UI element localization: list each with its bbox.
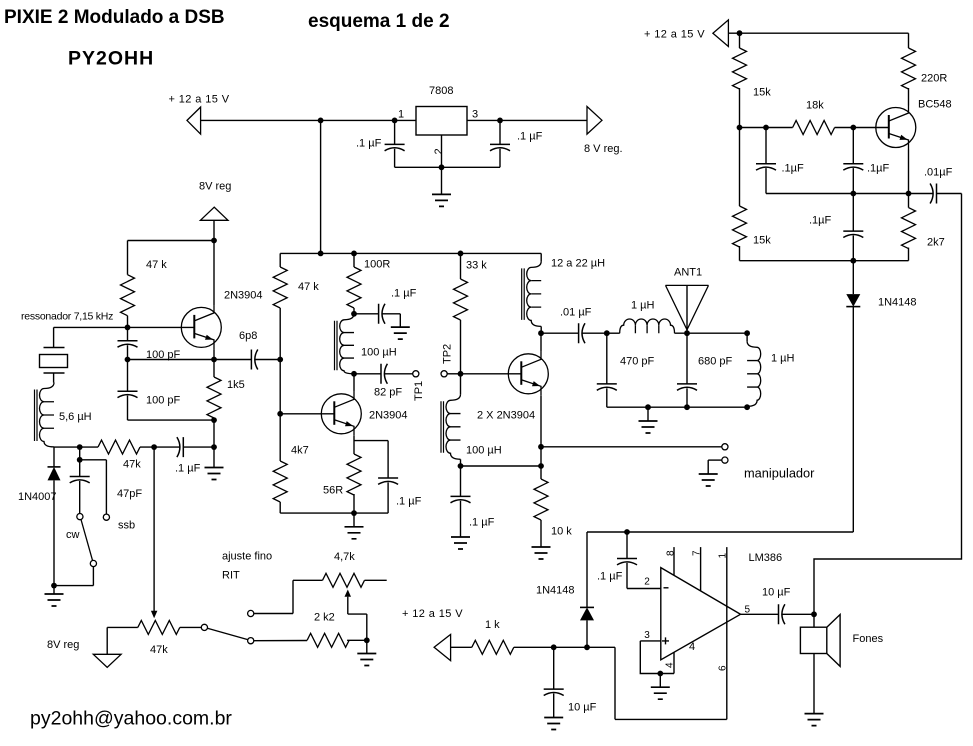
resistor 18k <box>793 121 835 135</box>
resistor 2 k2 <box>307 633 349 647</box>
wire .01uF right lead <box>582 332 607 334</box>
wire base row left <box>740 127 793 129</box>
wire speaker bottom lead <box>813 654 815 714</box>
ground buffer <box>345 527 364 539</box>
wire +12V rail to 7808 pin1 <box>201 119 395 121</box>
wire output cap right lead <box>782 613 814 615</box>
svg-text:47k: 47k <box>123 459 141 471</box>
op-amp U2 LM386 triangle <box>661 568 741 660</box>
svg-text:.1µF: .1µF <box>867 163 890 175</box>
switch lever RIT <box>207 628 247 639</box>
switch lever cw <box>81 520 93 561</box>
svg-text:.1 µF: .1 µF <box>391 288 417 300</box>
node collector decoup <box>351 311 357 317</box>
node osc ground <box>211 444 217 450</box>
svg-text:2 k2: 2 k2 <box>314 612 335 624</box>
wire ground stem buffer <box>353 513 355 527</box>
svg-text:8: 8 <box>665 550 676 556</box>
svg-text:6: 6 <box>717 665 728 671</box>
capacitor .01uF sidetone <box>930 184 936 204</box>
wire wiper corner <box>348 613 367 615</box>
speaker Fones box <box>800 627 826 653</box>
svg-text:1 µH: 1 µH <box>631 300 655 312</box>
terminal ssb <box>103 514 109 520</box>
wire antenna stem <box>686 285 688 333</box>
pin 1-6 line <box>726 547 728 719</box>
ground 7808 <box>432 194 451 206</box>
node rail x460 <box>458 251 464 257</box>
resistor 220R <box>902 48 916 89</box>
node varicap tap <box>77 444 83 450</box>
wire emitter row <box>128 359 215 361</box>
wire choke to emitter node <box>461 465 542 467</box>
wire wiper down <box>347 597 349 614</box>
svg-text:100 µH: 100 µH <box>466 445 502 457</box>
resistor 100R <box>347 267 361 308</box>
wire 1k5 top stub <box>213 360 215 378</box>
wire bottom of divider <box>128 419 215 421</box>
wire 10uF bottom lead <box>553 694 555 718</box>
wire bottom bus top right <box>740 260 909 262</box>
node filter gnd c <box>744 404 750 410</box>
node 8V reg <box>211 238 217 244</box>
speaker Fones cone <box>827 615 840 667</box>
node emitter bus b <box>906 191 912 197</box>
wiper arrow RIT pot <box>151 611 158 619</box>
wire capC top lead <box>852 194 854 232</box>
wire capC bottom lead <box>852 236 854 261</box>
diode 1N4007 <box>48 467 61 481</box>
capacitor 10 uF audio <box>544 689 564 695</box>
wire to pin2 <box>627 588 661 590</box>
svg-text:100R: 100R <box>364 259 390 271</box>
svg-text:4,7k: 4,7k <box>334 551 355 563</box>
wire switch common to ground <box>54 585 93 587</box>
wire 33k top stub <box>460 253 462 279</box>
wire upper throw to corner <box>254 613 293 615</box>
wire coil bottom to 47k row <box>53 446 55 448</box>
svg-text:2 X 2N3904: 2 X 2N3904 <box>477 410 535 422</box>
resistor 15k upper <box>733 48 747 89</box>
svg-text:1N4148: 1N4148 <box>878 297 917 309</box>
wire 7808 pin2 <box>441 135 443 167</box>
inductor 5,6 uH <box>35 383 55 447</box>
wire ground stem filter <box>647 407 649 421</box>
wire diode top lead TR <box>852 261 854 294</box>
ground RIT <box>357 654 376 666</box>
node RIT line <box>151 444 157 450</box>
connector +12V arrow top right <box>713 20 729 47</box>
wire crystal bottom lead <box>53 373 55 383</box>
wire crystal top lead <box>53 327 55 347</box>
node 10uF audio <box>551 644 557 650</box>
svg-text:15k: 15k <box>753 87 771 99</box>
svg-text:+ 12 a 15 V: + 12 a 15 V <box>644 29 705 41</box>
svg-text:47pF: 47pF <box>117 488 142 500</box>
svg-text:.1 µF: .1 µF <box>175 463 201 475</box>
wire capA top lead <box>765 128 767 164</box>
wire ground stem osc <box>213 447 215 467</box>
svg-text:.1µF: .1µF <box>782 163 805 175</box>
wire cap C1 bottom lead <box>394 149 396 168</box>
svg-text:2N3904: 2N3904 <box>224 290 263 302</box>
capacitor 100 pF lower <box>118 391 138 397</box>
wire 2k7 bottom stub <box>908 248 910 261</box>
ground decoup <box>391 327 410 339</box>
ground 10uF audio <box>544 718 563 730</box>
node 7808 pin1 <box>392 118 398 124</box>
node Q3 emitter <box>538 444 544 450</box>
node emitter bus a <box>850 191 856 197</box>
wire 56R bottom stub <box>353 494 355 513</box>
wire 15k-2 top stub <box>739 128 741 207</box>
connector 8V reg output arrow <box>587 107 602 135</box>
wire sidetone cap left lead <box>909 193 933 195</box>
node antenna <box>684 330 690 336</box>
transistor Q2 2N3904 buffer <box>321 392 361 436</box>
capacitor .1 uF decoup <box>379 304 385 324</box>
svg-text:1: 1 <box>398 109 404 121</box>
power symbol 8V reg down-triangle <box>93 654 121 667</box>
wire 6p8 right lead <box>255 359 280 361</box>
wire shunt coil top lead <box>746 333 748 341</box>
terminal manipulador hot <box>722 444 728 450</box>
resistor 4k7 <box>273 461 287 502</box>
terminal TP1 <box>413 371 419 377</box>
svg-text:18k: 18k <box>806 100 824 112</box>
svg-text:esquema 1 de 2: esquema 1 de 2 <box>308 11 450 32</box>
resistor 47 k bias <box>121 275 135 316</box>
wire cap C2 bottom lead <box>499 149 501 168</box>
wire ground stem RIT <box>366 640 368 653</box>
capacitor .1 uF final <box>451 496 471 502</box>
capacitor 82 pF <box>381 364 387 384</box>
wire 4k7 bottom stub <box>279 502 281 513</box>
svg-text:15k: 15k <box>753 235 771 247</box>
svg-text:5,6 µH: 5,6 µH <box>59 411 92 423</box>
wire audio diode top lead <box>586 532 588 607</box>
node PA collector <box>538 330 544 336</box>
wire sidetone right lead <box>937 193 962 195</box>
node 7808 ground <box>439 164 445 170</box>
capacitor .1uF output <box>490 144 510 150</box>
svg-text:LM386: LM386 <box>749 552 783 564</box>
node filter gnd a <box>645 404 651 410</box>
minus sign pin2 <box>664 587 669 589</box>
potentiometer 4,7k <box>323 573 365 587</box>
capacitor .1 uF LM386 input <box>617 559 637 565</box>
wire 15k-1 top stub <box>739 33 741 48</box>
wire cap 100pF-2 top lead <box>127 360 129 392</box>
wire 15k-1 bottom stub <box>739 88 741 128</box>
wire 470pF bottom lead <box>606 388 608 407</box>
wire cap627 top lead <box>626 532 628 559</box>
svg-text:cw: cw <box>66 529 80 541</box>
node 7808 pin3 <box>497 118 503 124</box>
connector +12V arrow bottom <box>434 634 451 660</box>
svg-text:.01 µF: .01 µF <box>560 307 592 319</box>
node Q4 base <box>850 125 856 131</box>
wire 7808 pin3 stub <box>467 119 500 121</box>
svg-text:TP1: TP1 <box>413 381 425 401</box>
wire sidetone to speaker <box>814 194 962 615</box>
node op-amp ground <box>657 671 663 677</box>
svg-text:7: 7 <box>692 550 703 556</box>
inductor 1 uH shunt <box>747 341 761 406</box>
capacitor .1uF C <box>843 231 863 237</box>
capacitor .1 uF osc <box>177 437 183 457</box>
wire speaker top lead <box>813 614 815 627</box>
node choke bottom <box>458 463 464 469</box>
svg-text:ANT1: ANT1 <box>674 267 702 279</box>
wire key jack ground down <box>707 460 709 474</box>
wire 6p8 left lead <box>214 359 251 361</box>
inductor 100 uH buffer <box>335 314 355 374</box>
wire cap 100pF-1 bottom lead <box>127 345 129 359</box>
svg-text:3: 3 <box>644 630 650 641</box>
wire Q2 base <box>280 413 334 415</box>
svg-text:4: 4 <box>689 641 695 653</box>
svg-text:PY2OHH: PY2OHH <box>68 48 154 70</box>
wire cap to gnd node <box>183 446 214 448</box>
potentiometer 47k RIT <box>138 620 180 634</box>
node Q1 emitter <box>211 357 217 363</box>
wire emitter to key jack <box>541 446 722 448</box>
wire .01uF left lead <box>541 332 579 334</box>
svg-text:1k5: 1k5 <box>227 379 245 391</box>
svg-text:manipulador: manipulador <box>744 466 815 481</box>
pin 8 stub <box>673 547 675 575</box>
svg-text:.1 µF: .1 µF <box>597 571 623 583</box>
diode 1N4148 audio <box>580 607 594 620</box>
wire diode down long <box>852 307 854 532</box>
wire to 47k pot <box>107 626 138 628</box>
wire 10k bottom stub <box>540 520 542 547</box>
wire 680pF top lead <box>686 333 688 384</box>
svg-text:8V reg: 8V reg <box>47 639 79 651</box>
wire 47k to base column <box>279 308 281 414</box>
wiper arrow 4,7k pot <box>345 590 352 597</box>
diode 1N4148 top <box>846 294 860 307</box>
wire 100R top stub <box>353 253 355 267</box>
wire to 1uH <box>607 332 620 334</box>
wire output pin5 <box>741 613 779 615</box>
wire audio diode bottom lead <box>586 620 588 647</box>
pin 3 loop <box>640 641 674 674</box>
capacitor 47pF <box>70 477 90 483</box>
capacitor .01 uF coupling <box>579 323 585 343</box>
pin 7 stub <box>700 547 702 591</box>
svg-text:2: 2 <box>433 148 445 154</box>
antenna ANT1 <box>666 285 709 329</box>
node 1uH shunt top <box>744 330 750 336</box>
capacitor 470 pF <box>597 384 617 390</box>
svg-text:8 V reg.: 8 V reg. <box>584 143 623 155</box>
node buffer input <box>277 357 283 363</box>
node rail x320 <box>318 251 324 257</box>
ground final bypass <box>451 537 470 549</box>
svg-text:.1 µF: .1 µF <box>517 131 543 143</box>
wire cap 100pF-1 top lead <box>127 327 129 340</box>
svg-text:100 µH: 100 µH <box>361 347 397 359</box>
node speaker <box>811 611 817 617</box>
svg-text:10 µF: 10 µF <box>568 702 597 714</box>
resistor 47 k buffer bias <box>273 267 287 308</box>
capacitor 6p8 <box>251 350 257 370</box>
wire 47pF bottom lead <box>79 481 81 514</box>
wire Q4 emitter down <box>908 150 910 194</box>
svg-text:4: 4 <box>665 662 676 668</box>
wire 220R top stub <box>908 33 910 48</box>
terminal cw <box>77 514 83 520</box>
wire 10uF top lead <box>553 647 555 689</box>
plus sign pin3 <box>662 637 669 644</box>
svg-text:8V reg: 8V reg <box>199 181 231 193</box>
wire filter mid <box>675 332 748 334</box>
svg-text:10 k: 10 k <box>551 526 572 538</box>
wire 7808 output to 8V connector <box>500 119 587 121</box>
node 1k5 bottom <box>211 417 217 423</box>
ground 10k <box>532 547 551 559</box>
wire 4,7k right stub <box>365 579 387 581</box>
svg-text:2: 2 <box>644 577 650 588</box>
svg-text:1N4007: 1N4007 <box>18 491 57 503</box>
wire to 1k <box>451 646 472 648</box>
svg-text:ssb: ssb <box>118 520 135 532</box>
wire branch down to cap <box>387 441 389 478</box>
transistor Q1 2N3904 oscillator <box>181 305 221 349</box>
wire ground stem op-amp <box>659 674 661 688</box>
wire 47k top stub <box>127 241 129 275</box>
wire decoup cap to ground <box>382 313 400 315</box>
svg-text:PIXIE 2 Modulado a DSB: PIXIE 2 Modulado a DSB <box>4 7 225 28</box>
svg-text:Fones: Fones <box>853 633 884 645</box>
ground manipulador <box>699 474 718 486</box>
node TP1 row <box>351 371 357 377</box>
svg-text:82 pF: 82 pF <box>374 387 402 399</box>
wire audio top bus <box>587 531 853 533</box>
wire 7808 pin1 stub <box>395 119 416 121</box>
terminal RIT throw lower <box>248 638 254 644</box>
node +12V tap <box>318 118 324 124</box>
wire cap627 bottom lead <box>626 563 628 589</box>
inductor 12 a 22 uH <box>522 261 542 326</box>
wire choke top lead <box>460 374 462 395</box>
wire 2k7 top stub <box>908 194 910 208</box>
svg-text:.1µF: .1µF <box>809 215 832 227</box>
wire 220R to collector <box>908 88 910 106</box>
node diode audio <box>584 644 590 650</box>
wire 47k bottom to base node <box>127 316 129 328</box>
wire 680pF bottom lead <box>686 388 688 407</box>
terminal TP2 <box>441 371 447 377</box>
wire 8V rail middle <box>280 252 541 254</box>
wire wiper to ground node <box>366 614 368 640</box>
wire choke bottom lead <box>460 459 462 466</box>
inductor 1 uH filter <box>620 319 675 333</box>
wire ground stem switch <box>53 586 55 594</box>
wire emitter cap bottom lead <box>387 482 389 513</box>
wire rail corner down <box>279 253 281 267</box>
svg-text:.1 µF: .1 µF <box>469 517 495 529</box>
svg-text:47 k: 47 k <box>298 281 319 293</box>
wire Q4 base lead <box>853 127 888 129</box>
wire key jack ground lead <box>708 459 722 461</box>
wire cap C2 top lead <box>499 120 501 144</box>
wire 82pF to TP1 <box>385 373 413 375</box>
terminal RIT throw upper <box>248 610 254 616</box>
wire Q2 collector <box>353 374 355 392</box>
node bias bottom <box>850 258 856 264</box>
wire capA bottom lead <box>765 168 767 193</box>
wire choke exit <box>540 326 542 333</box>
crystal resonator plates <box>44 348 65 374</box>
resistor 10 k <box>534 479 548 520</box>
wire to 4,7k pot <box>293 579 323 581</box>
svg-text:.01µF: .01µF <box>924 167 953 179</box>
wire emitter branch right <box>354 440 388 442</box>
regulator U1 7808 body <box>416 107 467 136</box>
svg-text:2k7: 2k7 <box>927 237 945 249</box>
svg-text:3: 3 <box>472 109 478 121</box>
wire decoup cap left lead <box>354 313 379 315</box>
svg-text:.1 µF: .1 µF <box>396 496 422 508</box>
wire corner up <box>292 580 294 613</box>
node Q2 base <box>277 411 283 417</box>
capacitor 10 uF output <box>779 604 785 624</box>
svg-text:2N3904: 2N3904 <box>369 410 408 422</box>
wire down-triangle stem <box>106 627 108 654</box>
resistor 56R <box>347 454 361 495</box>
capacitor 100 pF upper <box>118 341 138 347</box>
wire 47pF top lead <box>79 460 81 477</box>
svg-text:+ 12 a 15 V: + 12 a 15 V <box>402 608 463 620</box>
wire TP2 stub <box>447 373 460 375</box>
svg-text:470 pF: 470 pF <box>620 356 655 368</box>
node RIT ground <box>364 637 370 643</box>
svg-text:56R: 56R <box>323 485 343 497</box>
wire Q2 emitter <box>353 436 355 454</box>
ground filter <box>639 421 658 433</box>
wire 7808 ground bus <box>395 166 500 168</box>
wire buffer ground bus <box>280 512 388 514</box>
node rail x354 <box>351 251 357 257</box>
svg-text:1N4148: 1N4148 <box>536 585 575 597</box>
node buffer ground <box>351 510 357 516</box>
wire Q1 emitter lead <box>213 349 215 359</box>
resistor 47k osc <box>98 440 140 454</box>
svg-text:6p8: 6p8 <box>239 330 257 342</box>
svg-text:RIT: RIT <box>222 570 240 582</box>
wire 100R bottom stub <box>353 308 355 314</box>
svg-text:10 µF: 10 µF <box>762 587 791 599</box>
wire audio bottom bus <box>615 718 727 720</box>
wire emitter bus <box>766 193 909 195</box>
svg-text:1 k: 1 k <box>485 619 500 631</box>
wire Q3 emitter <box>540 396 542 447</box>
wire audio corner down <box>614 647 616 719</box>
wire capB bottom lead <box>852 168 854 193</box>
node divider mid <box>737 125 743 131</box>
wire 47k to RIT node <box>140 446 180 448</box>
wire ground stem decoup <box>399 314 401 327</box>
wire Q3 base <box>461 373 522 375</box>
wire base rail resonator <box>54 326 195 328</box>
wire lower throw to 2k2 <box>254 640 307 642</box>
wire 1k to corner <box>514 646 615 648</box>
svg-text:47 k: 47 k <box>146 259 167 271</box>
wire filter ground bus <box>607 406 747 408</box>
